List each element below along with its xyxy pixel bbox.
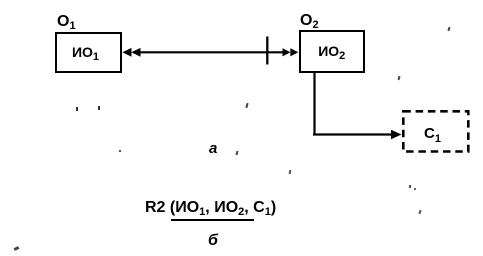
arrowhead pair at ИО1 (left, pointing left)	[122, 48, 131, 57]
tick mark crossing the link	[266, 37, 268, 65]
wire: horizontal run to C1	[313, 133, 393, 135]
formula R2(ИО1, ИО2, C1)	[145, 199, 276, 217]
node O1 label	[57, 13, 76, 31]
block IO2 (ИО2)	[299, 30, 365, 73]
arrowhead pair at ИО2 (right, pointing right)	[283, 48, 291, 56]
caption a (а)	[209, 140, 217, 157]
block C1 dashed box	[403, 111, 468, 151]
speckle	[398, 76, 401, 80]
speckle	[414, 188, 416, 190]
speckle	[289, 170, 291, 174]
speckle	[119, 150, 121, 152]
node O2 label	[300, 12, 319, 30]
speckle	[419, 210, 422, 214]
wire: double-headed link between ИО1 and ИО2	[136, 51, 287, 53]
wire: vertical drop from ИО2	[313, 71, 315, 135]
label C1 inside dashed box	[424, 125, 441, 142]
speckle	[447, 27, 450, 31]
speckle	[98, 106, 100, 110]
speckle	[236, 151, 239, 155]
underline of formula	[171, 219, 254, 221]
caption b (б)	[208, 232, 218, 250]
speckle	[409, 185, 411, 188]
speckle	[76, 107, 78, 111]
speckle	[14, 246, 20, 251]
block IO1 (ИО1)	[55, 32, 122, 73]
arrowhead into C1	[391, 130, 402, 140]
speckle	[245, 103, 248, 108]
